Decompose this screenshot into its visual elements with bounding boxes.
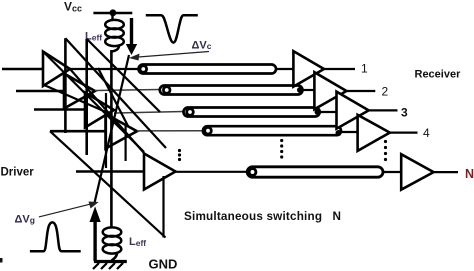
svg-text:Receiver: Receiver <box>415 69 462 81</box>
dots ellipsis driver <box>178 149 181 152</box>
arrow pointer to Vcc inductor lead <box>132 52 209 58</box>
receiver RN <box>401 154 433 190</box>
inductor L2 Leff (bottom) <box>103 227 122 260</box>
wire fan line A <box>43 52 144 153</box>
arrow ground current up (bold) <box>93 221 96 261</box>
wire input D4 <box>50 130 106 133</box>
wire input D2 <box>16 90 64 93</box>
transmission line TL2 <box>160 86 303 95</box>
wire output R2 <box>347 90 376 92</box>
wire input DN <box>76 170 144 173</box>
wire D4 ground stub <box>105 93 107 168</box>
wire TL3 to R3 <box>320 111 337 113</box>
transmission line TL4 <box>203 126 341 135</box>
wire Vcc down to inductor <box>111 13 113 21</box>
wire power rail vertical <box>110 50 113 227</box>
transmission line TL1 <box>139 65 277 74</box>
waveform delta-Vc dip <box>146 15 198 42</box>
wire output R3 <box>369 109 398 111</box>
receiver R1 <box>293 51 324 87</box>
svg-text:Simultaneous switching N: Simultaneous switching N <box>184 210 341 223</box>
svg-text:Leff: Leff <box>129 236 146 248</box>
wire TL4 to R4 <box>341 131 358 133</box>
wire fan line F <box>94 55 129 205</box>
ground hatches <box>93 263 99 269</box>
wire Vcc stub to D3 <box>85 39 88 155</box>
wire input D3 <box>34 108 85 111</box>
driver D1 <box>43 52 70 87</box>
wire DN ground pin <box>162 176 164 238</box>
receiver R2 <box>314 72 346 109</box>
ground bar <box>94 260 127 263</box>
wire output RN <box>434 171 458 173</box>
wire input D1 <box>2 68 43 71</box>
svg-text:4: 4 <box>423 126 430 140</box>
wire output D1 <box>70 68 139 70</box>
wire fan line C <box>87 39 160 112</box>
wire output D4 <box>137 130 203 132</box>
svg-text:N: N <box>465 167 474 181</box>
dots ellipsis left <box>280 139 283 142</box>
wire stub vertical <box>124 126 126 161</box>
dots ellipsis right <box>384 140 387 143</box>
receiver R4 <box>358 115 390 151</box>
wire output DN <box>176 171 248 173</box>
arrow pointer delta-Vg <box>39 203 96 217</box>
svg-text:Driver: Driver <box>1 167 35 179</box>
waveform delta-Vg pulse <box>30 222 81 251</box>
wire fan line S1 <box>98 68 128 126</box>
edge artifact dash <box>0 258 3 263</box>
svg-text:2: 2 <box>382 85 389 99</box>
wire fan line G <box>44 85 106 112</box>
wire TLN to RN <box>383 171 401 173</box>
wire fan line D <box>50 131 166 237</box>
inductor L1 Leff (top) <box>105 20 124 52</box>
wire output R4 <box>390 132 418 134</box>
Vcc rail wire <box>93 12 132 15</box>
node Vcc junction dot <box>110 9 117 16</box>
driver DN <box>144 154 176 190</box>
driver D4 <box>106 114 138 149</box>
driver D2 <box>64 74 95 109</box>
svg-text:3: 3 <box>401 106 408 120</box>
svg-text:GND: GND <box>149 257 178 271</box>
arrow current down (bold) <box>130 18 133 45</box>
driver D3 <box>85 93 114 128</box>
transmission line TLN <box>247 167 383 177</box>
wire output D3 <box>114 112 184 114</box>
svg-text:ΔVc: ΔVc <box>192 40 212 52</box>
transmission line TL3 <box>184 108 320 117</box>
wire fan line B <box>65 38 166 148</box>
wire TL2 to R2 <box>303 89 315 91</box>
wire output R1 <box>324 68 355 70</box>
wire Vcc stub to D2 <box>64 38 67 133</box>
svg-text:ΔVg: ΔVg <box>15 214 35 226</box>
svg-text:1: 1 <box>361 62 368 76</box>
receiver R3 <box>337 92 369 129</box>
wire TL1 to R1 <box>276 68 293 70</box>
wire output D2 <box>95 90 160 91</box>
wire fan apex chain <box>70 69 144 153</box>
